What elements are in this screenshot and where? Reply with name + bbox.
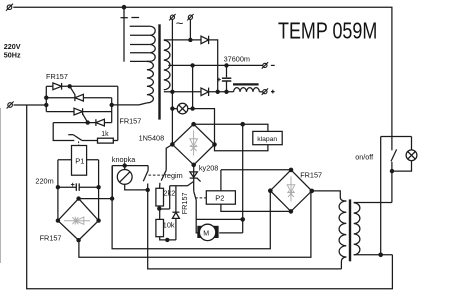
svg-text:37600m: 37600m bbox=[224, 54, 250, 63]
svg-text:1k: 1k bbox=[101, 131, 109, 138]
svg-text:~: ~ bbox=[176, 16, 184, 31]
svg-text:FR157: FR157 bbox=[119, 117, 141, 126]
svg-text:regim: regim bbox=[165, 171, 183, 180]
svg-text:M: M bbox=[203, 231, 209, 238]
svg-text:10k: 10k bbox=[163, 221, 175, 230]
svg-text:ky208: ky208 bbox=[199, 164, 218, 173]
svg-text:FR157: FR157 bbox=[46, 72, 68, 81]
svg-text:50Hz: 50Hz bbox=[4, 50, 21, 59]
svg-text:2k2: 2k2 bbox=[164, 189, 176, 198]
svg-text:klapan: klapan bbox=[257, 136, 277, 143]
svg-text:FR157: FR157 bbox=[40, 233, 62, 242]
svg-text:knopka: knopka bbox=[112, 155, 136, 164]
svg-text:P1: P1 bbox=[75, 157, 84, 166]
svg-text:FR157: FR157 bbox=[300, 170, 322, 179]
svg-text:on/off: on/off bbox=[355, 152, 373, 161]
svg-text:TEMP 059M: TEMP 059M bbox=[278, 18, 377, 44]
svg-text:P2: P2 bbox=[215, 194, 224, 203]
svg-text:FR157: FR157 bbox=[180, 192, 189, 214]
svg-text:220m: 220m bbox=[35, 176, 53, 185]
svg-text:1N5408: 1N5408 bbox=[139, 134, 165, 143]
